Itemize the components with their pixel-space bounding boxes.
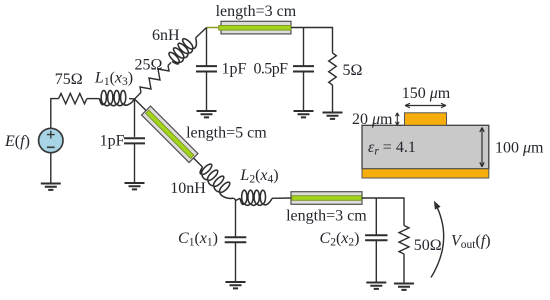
wire 5ohm to ground: [332, 85, 334, 113]
Vout arc arrow: [431, 204, 444, 278]
svg-text:100 μm: 100 μm: [495, 140, 544, 157]
ground below 50ohm: [394, 284, 414, 290]
wire down to 0.5pF cap: [303, 28, 305, 66]
resistor 75ohm: [59, 93, 87, 103]
svg-text:150 μm: 150 μm: [402, 85, 451, 102]
inductor 6nH: [169, 38, 196, 64]
wire TL3 right to 50ohm: [362, 198, 404, 226]
svg-text:75Ω: 75Ω: [55, 71, 83, 88]
resistor 50ohm: [399, 226, 409, 255]
svg-text:0.5pF: 0.5pF: [254, 60, 289, 77]
wire L2 to TL3: [272, 197, 291, 199]
svg-text:5Ω: 5Ω: [343, 62, 363, 79]
ground below source: [41, 184, 61, 190]
source minus sign: [47, 146, 55, 148]
TL1 green strip: [219, 26, 291, 31]
wire 50ohm to ground: [403, 254, 405, 284]
svg-text:20 μm: 20 μm: [352, 111, 393, 128]
wire source to ground: [50, 153, 52, 184]
ground below C1: [226, 282, 246, 288]
TL3 green strip: [292, 196, 362, 201]
svg-text:length=5 cm: length=5 cm: [186, 124, 267, 141]
ground below C2: [366, 283, 386, 289]
transmission line TL3 length=3cm body: [291, 192, 362, 205]
svg-text:C2(x2): C2(x2): [320, 230, 360, 249]
svg-text:25Ω: 25Ω: [135, 57, 163, 74]
wire 75ohm to L1: [87, 98, 100, 100]
wire node A to TL2: [135, 99, 147, 111]
inductor 10nH: [200, 164, 233, 198]
wire 1pF to ground: [206, 72, 208, 112]
source plus sign: [47, 131, 55, 139]
svg-text:L2(x4): L2(x4): [239, 167, 278, 186]
wire corner down to 1pF top-right cap: [206, 28, 208, 66]
svg-text:50Ω: 50Ω: [414, 237, 442, 254]
svg-text:L1(x3): L1(x3): [94, 70, 133, 89]
wire node A down to 1pF cap: [134, 99, 136, 137]
wire node B down to C1: [235, 200, 237, 237]
svg-text:length=3 cm: length=3 cm: [286, 208, 367, 225]
ground below 5ohm: [323, 113, 343, 119]
resistor 25ohm: [140, 66, 169, 93]
wire 1pF cap to ground: [134, 143, 136, 183]
capacitor 1pF at node A: [124, 138, 145, 143]
arrow 20um thickness: [396, 113, 400, 126]
wire L1 to node A: [129, 98, 134, 100]
svg-text:1pF: 1pF: [100, 133, 125, 150]
Vout arrowhead: [434, 201, 441, 210]
capacitor C1(x1): [225, 237, 247, 242]
svg-text:6nH: 6nH: [152, 27, 180, 44]
inductor L2(x4): [240, 190, 272, 205]
inductor L1(x3): [100, 91, 135, 106]
wire TL2 to 10nH: [194, 158, 203, 167]
svg-text:C1(x1): C1(x1): [178, 230, 218, 249]
microstrip top conductor: [405, 113, 447, 126]
wire node A to 25ohm: [135, 93, 142, 100]
wire corner to TL1 (olive lead): [207, 27, 222, 29]
wire source to 75ohm: [51, 99, 59, 129]
wire 25ohm to 6nH: [168, 63, 171, 66]
capacitor C2(x2): [365, 235, 387, 240]
arrow 100um height: [480, 128, 484, 167]
wire C1 to ground: [235, 242, 237, 282]
microstrip substrate: [362, 125, 489, 169]
ground below node cap: [125, 183, 145, 189]
transmission line TL1 length=3cm body: [221, 21, 291, 34]
microstrip bottom conductor: [362, 169, 489, 178]
transmission line TL2 length=5cm body: [142, 106, 198, 162]
ground below 0.5pF: [294, 111, 314, 117]
svg-text:E(f): E(f): [4, 133, 30, 150]
wire down to C2: [375, 198, 377, 235]
svg-text:length=3 cm: length=3 cm: [216, 3, 297, 20]
svg-text:Vout(f): Vout(f): [451, 233, 491, 252]
wire TL1 right to 5ohm corner: [291, 28, 333, 54]
wire 0.5pF to ground: [303, 72, 305, 112]
ground below 1pF: [197, 111, 217, 117]
arrow 150um width: [405, 103, 446, 107]
wire C2 to ground: [375, 240, 377, 282]
wire node B to L2: [236, 198, 240, 200]
svg-text:10nH: 10nH: [170, 180, 206, 197]
capacitor 0.5pF: [293, 66, 314, 71]
resistor 5ohm: [329, 53, 337, 85]
capacitor 1pF top right: [196, 66, 217, 71]
voltage source E(f): [39, 128, 63, 152]
wire 10nH to node B: [234, 198, 237, 200]
svg-text:1pF: 1pF: [222, 60, 247, 77]
wire 6nH to corner node: [196, 28, 207, 39]
